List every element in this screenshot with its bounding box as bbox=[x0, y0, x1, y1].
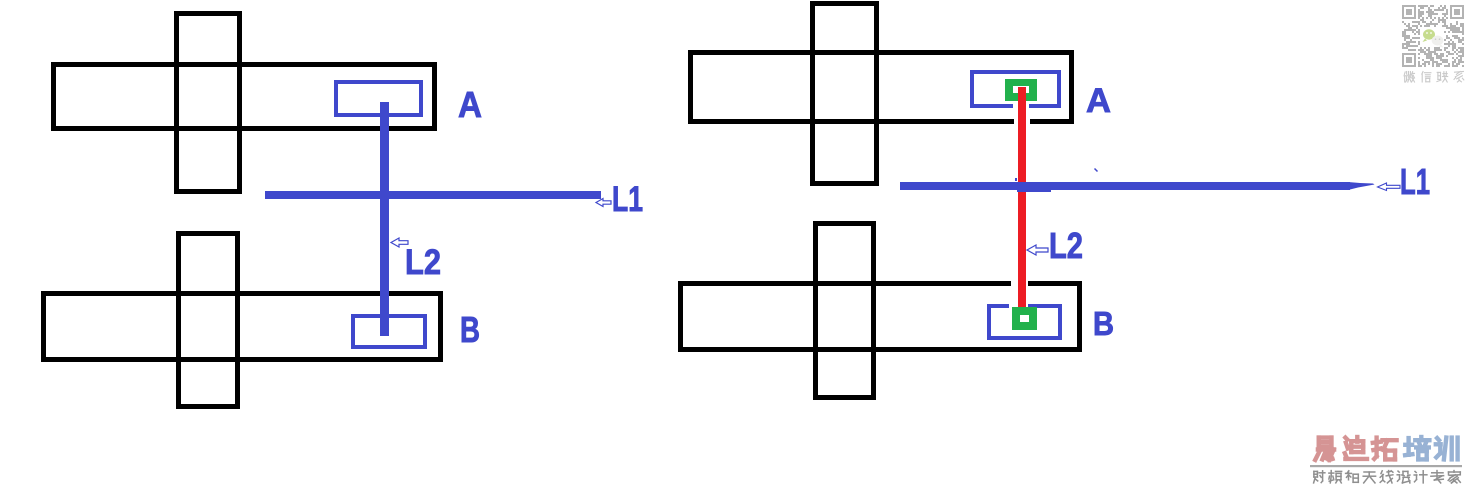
via hole A (white) bbox=[1013, 86, 1029, 93]
arrow L2 (right) bbox=[1027, 245, 1048, 255]
arrow L1 (left) bbox=[596, 199, 611, 207]
svg-text:L2: L2 bbox=[1049, 225, 1083, 266]
QR code (top right, faded gray) bbox=[1402, 5, 1464, 67]
gap in pad A bottom edge bbox=[1013, 103, 1029, 109]
gap in top cross bottom edge where red via line passes bbox=[1014, 117, 1030, 127]
via pad B (green) bbox=[1012, 307, 1037, 330]
stub line L2 (left, blue) bbox=[380, 102, 389, 336]
left layout: horizontal conductor strip (bottom cross) bbox=[44, 294, 441, 360]
via line L2 (red) bbox=[1018, 87, 1026, 307]
logo title Yi Di Tuo (pale red) bbox=[1315, 438, 1334, 460]
svg-text:A: A bbox=[1086, 82, 1111, 120]
gap in pad B top edge bbox=[1009, 303, 1028, 309]
arrow L1 (right) bbox=[1378, 183, 1401, 191]
svg-text:L1: L1 bbox=[612, 180, 643, 219]
svg-text:L2: L2 bbox=[405, 243, 441, 282]
pad A outline (left) bbox=[336, 82, 421, 115]
via pad A (green) bbox=[1005, 79, 1037, 101]
left layout: vertical conductor strip (bottom cross) bbox=[179, 234, 238, 407]
right layout: vertical conductor strip (bottom cross) bbox=[816, 224, 874, 398]
right layout: vertical conductor strip (top cross) bbox=[813, 4, 877, 184]
left layout: vertical conductor strip (top cross) bbox=[177, 14, 240, 192]
L1 right taper end bbox=[1348, 182, 1375, 190]
svg-text:A: A bbox=[458, 84, 482, 125]
L1 bump under crossing bbox=[1017, 189, 1051, 192]
pad B outline (left) bbox=[353, 316, 425, 347]
pad A outline (right) bbox=[972, 72, 1059, 106]
svg-text:L1: L1 bbox=[1400, 161, 1430, 202]
svg-text:B: B bbox=[1093, 305, 1114, 342]
logo subtitle (gray) bbox=[1314, 471, 1325, 483]
left layout: horizontal conductor strip (top cross) bbox=[54, 65, 435, 129]
stray speck left of red bbox=[1015, 178, 1017, 181]
logo 易迪拓培训 (bottom right) bbox=[1310, 72, 1464, 483]
gap in bottom cross top edge where red via line passes bbox=[1011, 280, 1028, 289]
right layout: horizontal conductor strip (bottom cross) bbox=[681, 284, 1080, 350]
wechat contact text bbox=[1404, 72, 1415, 83]
pad B outline (right) bbox=[989, 306, 1060, 338]
svg-text:B: B bbox=[460, 309, 480, 350]
feed line L1 (left, blue) bbox=[265, 191, 601, 199]
logo title Pei Xun (pale blue) bbox=[1405, 437, 1429, 459]
feed line L1 (right, blue) bbox=[900, 182, 1350, 190]
small stray tick above L1 bbox=[1095, 169, 1098, 172]
arrow L2 (left) bbox=[391, 238, 408, 247]
via hole B (white) bbox=[1020, 315, 1029, 322]
logo underline bbox=[1310, 465, 1462, 467]
right layout: horizontal conductor strip (top cross) bbox=[691, 53, 1072, 122]
